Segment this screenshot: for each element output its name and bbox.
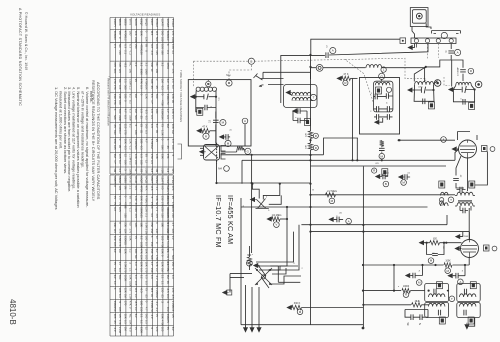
svg-text:22K: 22K — [145, 207, 149, 212]
link between grid coil circle and T1 circle — [381, 71, 384, 74]
audio bus y231 — [311, 232, 470, 239]
svg-text:4.7: 4.7 — [166, 109, 170, 113]
svg-text:8.2: 8.2 — [118, 160, 122, 164]
svg-text:105: 105 — [118, 307, 122, 312]
svg-text:22K: 22K — [161, 168, 165, 173]
svg-text:47K: 47K — [166, 100, 170, 105]
wire grid line — [311, 67, 426, 69]
svg-text:M: M — [331, 199, 334, 203]
svg-text:115: 115 — [134, 281, 138, 286]
svg-text:250: 250 — [139, 307, 143, 312]
series cap C2 — [326, 52, 328, 58]
svg-text:12: 12 — [113, 37, 117, 40]
svg-text:.05: .05 — [386, 173, 390, 175]
svg-text:A: A — [442, 138, 444, 142]
svg-text:3.2: 3.2 — [161, 62, 165, 66]
svg-text:100K: 100K — [123, 275, 127, 282]
svg-text:8.2: 8.2 — [171, 327, 175, 331]
svg-text:6SB7Y: 6SB7Y — [113, 19, 117, 28]
svg-text:8.2: 8.2 — [171, 85, 175, 89]
svg-text:0: 0 — [118, 222, 122, 224]
gang link dashed — [415, 44, 417, 48]
svg-text:M: M — [402, 181, 405, 185]
svg-text:4.7: 4.7 — [113, 160, 117, 164]
wires below switch — [246, 285, 260, 328]
svg-text:measured at 1,000 ohms per vol: measured at 1,000 ohms per volt. — [58, 91, 63, 149]
svg-text:12K: 12K — [145, 94, 149, 99]
svg-text:33K: 33K — [118, 94, 122, 99]
svg-text:6.3: 6.3 — [134, 275, 138, 279]
grid return arrow — [456, 235, 462, 239]
svg-text:180: 180 — [155, 69, 159, 74]
T3 secondary coils — [429, 303, 445, 306]
svg-text:.05: .05 — [161, 186, 165, 190]
svg-text:0: 0 — [150, 236, 154, 238]
svg-text:6BE6: 6BE6 — [123, 19, 127, 26]
svg-text:10K: 10K — [145, 85, 149, 90]
svg-text:-1.2: -1.2 — [129, 50, 133, 55]
svg-text:65: 65 — [155, 130, 159, 133]
svg-text:6.3: 6.3 — [145, 130, 149, 134]
svg-text:250: 250 — [161, 196, 165, 201]
svg-text:115: 115 — [155, 31, 159, 36]
svg-text:8.2: 8.2 — [129, 100, 133, 104]
svg-text:12K: 12K — [134, 154, 138, 159]
svg-text:-1.2: -1.2 — [150, 314, 154, 319]
FM tuner section outline — [281, 55, 311, 103]
svg-text:250: 250 — [150, 268, 154, 273]
svg-text:.5: .5 — [171, 154, 175, 157]
svg-text:0: 0 — [155, 79, 159, 81]
svg-text:.05: .05 — [339, 213, 343, 215]
svg-text:100K: 100K — [145, 69, 149, 75]
T5 cap — [463, 208, 465, 214]
AM IF can T3 right — [457, 284, 480, 302]
svg-text:2.1: 2.1 — [150, 94, 154, 98]
junction circles mid — [372, 168, 377, 173]
svg-text:2.2 MEG: 2.2 MEG — [327, 190, 337, 193]
svg-text:180: 180 — [118, 100, 122, 105]
svg-text:10K: 10K — [139, 31, 143, 36]
svg-text:4.7: 4.7 — [150, 100, 154, 104]
svg-text:75: 75 — [113, 196, 117, 200]
ground arrows below switch — [243, 326, 247, 332]
svg-text:12K: 12K — [123, 288, 127, 293]
svg-text:2.1: 2.1 — [129, 268, 133, 272]
svg-text:z: z — [419, 270, 421, 273]
AM IF input caps — [411, 314, 413, 320]
svg-text:1M: 1M — [113, 154, 117, 159]
svg-text:1.5K: 1.5K — [155, 255, 159, 261]
svg-text:115: 115 — [123, 124, 127, 129]
svg-text:B: B — [385, 182, 387, 186]
B+ bus y166 — [311, 165, 447, 167]
IF out circle A — [441, 137, 447, 143]
svg-text:0: 0 — [155, 242, 159, 244]
audio amp tube V4 — [459, 140, 477, 158]
svg-text:1M: 1M — [113, 168, 117, 173]
svg-text:180: 180 — [161, 37, 165, 42]
grid resistor R8 2.2MEG — [326, 193, 336, 197]
T2 arrow — [408, 88, 414, 92]
svg-text:680 *: 680 * — [247, 254, 253, 257]
svg-text:270: 270 — [171, 31, 175, 36]
svg-text:250: 250 — [161, 288, 165, 293]
svg-text:A: A — [348, 219, 350, 223]
svg-text:c: c — [386, 102, 388, 105]
svg-text:NC: NC — [155, 62, 159, 66]
svg-text:R: R — [205, 134, 208, 138]
svg-text:6.3: 6.3 — [150, 124, 154, 128]
svg-text:75: 75 — [155, 314, 159, 318]
svg-text:1M: 1M — [155, 168, 159, 173]
330K resistor to AVC — [287, 305, 293, 309]
svg-text:3.2: 3.2 — [113, 207, 117, 211]
T5 core lines — [458, 200, 472, 201]
svg-text:95: 95 — [145, 154, 149, 158]
svg-text:0: 0 — [166, 139, 170, 141]
svg-text:560: 560 — [171, 255, 175, 260]
svg-text:4.7: 4.7 — [171, 222, 175, 226]
svg-text:A PHOTOFACT STANDARD NOTATION: A PHOTOFACT STANDARD NOTATION SCHEMATIC — [18, 8, 22, 106]
svg-text:47K: 47K — [416, 301, 420, 303]
svg-text:10K: 10K — [145, 249, 149, 254]
svg-text:5-w: 5-w — [219, 97, 221, 101]
svg-text:250: 250 — [150, 249, 154, 254]
svg-text:.5: .5 — [161, 301, 165, 304]
svg-text:10K: 10K — [161, 44, 165, 49]
V4 top box outline — [458, 132, 478, 141]
cathode hatched box left — [439, 181, 445, 188]
svg-text:75: 75 — [161, 124, 165, 128]
svg-text:0: 0 — [123, 196, 127, 198]
svg-text:10K: 10K — [305, 145, 307, 149]
terminal A1 — [414, 39, 418, 43]
svg-text:0: 0 — [171, 249, 175, 251]
svg-text:B: B — [250, 59, 252, 63]
svg-text:33K: 33K — [161, 50, 165, 55]
svg-text:12AT7: 12AT7 — [161, 176, 165, 184]
svg-text:560: 560 — [123, 85, 127, 90]
svg-text:270: 270 — [113, 85, 117, 90]
svg-text:12: 12 — [123, 154, 127, 158]
svg-text:2: 2 — [266, 197, 268, 199]
svg-text:270: 270 — [123, 130, 127, 135]
meter jack M4 — [224, 166, 230, 172]
svg-text:560: 560 — [145, 314, 149, 319]
svg-text:.5: .5 — [134, 268, 138, 271]
svg-text:250: 250 — [150, 242, 154, 247]
svg-text:2.1: 2.1 — [113, 44, 117, 48]
svg-text:1M: 1M — [123, 327, 127, 332]
svg-text:105: 105 — [161, 236, 165, 241]
svg-text:L: L — [383, 68, 385, 72]
svg-text:12: 12 — [155, 236, 159, 240]
long vertical x363 — [362, 166, 364, 328]
svg-text:6: 6 — [460, 99, 462, 101]
svg-text:33K: 33K — [129, 320, 133, 325]
svg-text:3: 3 — [211, 105, 213, 107]
svg-text:75: 75 — [118, 202, 122, 205]
switch output wires right — [268, 266, 301, 284]
svg-text:12K: 12K — [155, 154, 159, 159]
svg-text:3.2: 3.2 — [139, 275, 143, 279]
volume control R9 — [267, 217, 273, 221]
svg-text:22K: 22K — [171, 229, 175, 234]
bus y207 left segment — [241, 206, 311, 208]
svg-text:3.2: 3.2 — [171, 236, 175, 240]
T1 primary coil — [375, 82, 390, 85]
terminal A3 — [436, 39, 440, 43]
svg-text:8.2: 8.2 — [118, 130, 122, 134]
speaker voice coil — [441, 192, 449, 195]
svg-text:12K: 12K — [134, 222, 138, 227]
svg-text:6.3: 6.3 — [118, 268, 122, 272]
band switch S2 upper nest wires — [252, 184, 281, 205]
main vertical bus x310 — [310, 67, 312, 325]
svg-text:47K: 47K — [171, 186, 175, 191]
svg-text:270: 270 — [145, 268, 149, 273]
svg-text:6.3: 6.3 — [171, 275, 175, 279]
svg-text:250: 250 — [150, 229, 154, 234]
svg-text:12K: 12K — [161, 262, 165, 267]
V4 grid wire and arrow — [452, 147, 458, 151]
grid cap C7 on drop wire — [215, 112, 217, 144]
svg-text:4.7: 4.7 — [118, 262, 122, 266]
svg-text:M: M — [430, 259, 433, 263]
svg-text:180: 180 — [139, 222, 143, 227]
svg-text:100K: 100K — [445, 261, 451, 263]
svg-text:12K: 12K — [139, 50, 143, 55]
svg-text:5Y3GT: 5Y3GT — [171, 176, 175, 185]
svg-text:33K: 33K — [113, 222, 117, 227]
svg-text:6.3: 6.3 — [134, 262, 138, 266]
band switch S2 wiper — [250, 197, 256, 201]
svg-text:22K: 22K — [118, 50, 122, 55]
svg-text:22K: 22K — [129, 139, 133, 144]
svg-text:33K: 33K — [134, 207, 138, 212]
svg-text:115: 115 — [150, 31, 154, 36]
svg-text:10K: 10K — [123, 160, 127, 165]
svg-text:-8.5: -8.5 — [134, 301, 138, 306]
svg-text:8: 8 — [420, 322, 422, 324]
tube V1 6S8GT detector — [204, 145, 220, 161]
svg-text:4. Line voltage maintained at: 4. Line voltage maintained at 117 volts … — [72, 87, 77, 189]
junction dot — [309, 54, 311, 56]
grid cap V3 — [379, 148, 385, 150]
svg-text:-8.5: -8.5 — [139, 288, 143, 293]
svg-text:3.2: 3.2 — [145, 62, 149, 66]
loop trimmer C5 — [205, 105, 207, 111]
svg-text:65: 65 — [150, 294, 154, 297]
svg-text:250: 250 — [150, 222, 154, 227]
svg-text:0: 0 — [123, 100, 127, 102]
svg-text:T: T — [451, 297, 453, 301]
svg-text:6X5GT: 6X5GT — [166, 19, 170, 28]
svg-text:105: 105 — [118, 186, 122, 191]
svg-text:560: 560 — [155, 37, 159, 42]
svg-text:6.3: 6.3 — [145, 320, 149, 324]
svg-text:-1.2: -1.2 — [155, 301, 159, 306]
svg-text:1: 1 — [371, 93, 373, 95]
svg-text:6BA6: 6BA6 — [118, 19, 122, 26]
svg-text:.5: .5 — [166, 301, 170, 304]
svg-text:0: 0 — [113, 109, 117, 111]
svg-text:95: 95 — [166, 281, 170, 284]
T2 bottom cap — [423, 99, 425, 105]
cathode arrow V1 — [200, 150, 206, 154]
table: tube resistance chart (rotated) — [110, 175, 175, 336]
svg-text:-8.5: -8.5 — [150, 186, 154, 191]
svg-text:6AQ5: 6AQ5 — [145, 19, 149, 26]
T2b slug circle — [475, 81, 482, 88]
svg-text:8.2: 8.2 — [166, 37, 170, 41]
svg-text:33K: 33K — [161, 154, 165, 159]
antenna terminal wire — [230, 274, 252, 293]
svg-text:65: 65 — [139, 124, 143, 128]
svg-text:4.7: 4.7 — [123, 109, 127, 113]
svg-text:560: 560 — [113, 115, 117, 120]
svg-text:2.1: 2.1 — [171, 115, 175, 119]
margin notes: numbered service notes 1-6 — [54, 87, 94, 210]
svg-text:6.3: 6.3 — [123, 320, 127, 324]
svg-text:12K: 12K — [145, 37, 149, 42]
svg-text:A: A — [332, 49, 334, 53]
svg-text:12K: 12K — [171, 44, 175, 49]
tone cap C — [329, 217, 335, 221]
svg-text:22K: 22K — [134, 160, 138, 165]
svg-text:6BA6: 6BA6 — [118, 176, 122, 183]
svg-text:22K: 22K — [166, 307, 170, 312]
T2b bottom cap — [463, 99, 465, 105]
grid return corner — [455, 150, 458, 161]
padder C6 — [197, 108, 203, 115]
svg-text:12K: 12K — [161, 213, 165, 218]
svg-text:33K: 33K — [129, 275, 133, 280]
svg-text:3.2: 3.2 — [134, 294, 138, 298]
svg-text:R: R — [405, 293, 408, 297]
svg-text:470K: 470K — [161, 242, 165, 248]
T1 secondary return — [356, 138, 358, 160]
svg-text:10K: 10K — [171, 145, 175, 150]
V1 grid dashes — [216, 143, 218, 164]
audio bus y225 — [301, 215, 447, 225]
svg-text:0: 0 — [161, 139, 165, 141]
grid stopper resistor V3 — [381, 139, 383, 141]
svg-text:10K: 10K — [171, 207, 175, 212]
T1 inner can — [374, 81, 393, 112]
svg-text:10K: 10K — [139, 196, 143, 201]
svg-text:330K: 330K — [129, 115, 133, 121]
svg-text:6.3: 6.3 — [145, 242, 149, 246]
T2 center tap wire — [424, 67, 426, 82]
svg-text:.5: .5 — [150, 327, 154, 330]
svg-text:47K: 47K — [145, 186, 149, 191]
svg-text:-8.5: -8.5 — [155, 213, 159, 218]
svg-text:8.2: 8.2 — [166, 79, 170, 83]
svg-text:1: 1 — [336, 216, 338, 218]
svg-text:12K: 12K — [134, 196, 138, 201]
svg-text:6.3: 6.3 — [166, 168, 170, 172]
svg-text:6AT6: 6AT6 — [129, 176, 133, 183]
svg-text:1M: 1M — [161, 268, 165, 272]
svg-text:M: M — [381, 154, 384, 158]
svg-text:2.1: 2.1 — [155, 207, 159, 211]
svg-text:95: 95 — [129, 196, 133, 200]
svg-text:6AU6: 6AU6 — [134, 19, 138, 26]
svg-text:2.1: 2.1 — [145, 213, 149, 217]
svg-text:65: 65 — [129, 222, 133, 226]
svg-text:1.5K: 1.5K — [161, 130, 165, 136]
antenna terminal strip TS1 — [411, 38, 456, 44]
svg-text:6AQ5: 6AQ5 — [145, 176, 149, 183]
svg-text:47K: 47K — [113, 79, 117, 84]
filter cap 1 — [406, 273, 412, 277]
svg-text:180: 180 — [139, 139, 143, 144]
svg-text:IF=10.7 MC FM: IF=10.7 MC FM — [214, 195, 223, 248]
svg-text:22K: 22K — [155, 196, 159, 201]
svg-text:270: 270 — [129, 229, 133, 234]
phono input terminal — [400, 38, 406, 44]
svg-text:-1.2: -1.2 — [129, 207, 133, 212]
svg-text:180: 180 — [123, 213, 127, 218]
svg-text:47K: 47K — [118, 320, 122, 325]
svg-text:4.7: 4.7 — [150, 262, 154, 266]
svg-text:-8.5: -8.5 — [161, 85, 165, 90]
svg-text:6.3: 6.3 — [134, 62, 138, 66]
svg-text:10K: 10K — [123, 314, 127, 319]
svg-text:-8.5: -8.5 — [129, 160, 133, 165]
svg-text:470K: 470K — [139, 186, 143, 193]
svg-text:250K: 250K — [464, 236, 469, 238]
svg-text:-8.5: -8.5 — [129, 327, 133, 332]
svg-text:10000: 10000 — [403, 286, 410, 288]
T3 bottom caps — [438, 310, 440, 316]
svg-text:47K: 47K — [150, 154, 154, 159]
svg-text:10K: 10K — [171, 124, 175, 129]
svg-text:10: 10 — [209, 120, 212, 123]
terminal A4 — [449, 39, 453, 43]
svg-text:0: 0 — [123, 207, 127, 209]
svg-text:33K: 33K — [155, 229, 159, 234]
svg-text:47 K: 47 K — [202, 126, 207, 129]
svg-text:0: 0 — [161, 94, 165, 96]
AM IF can T3 left — [425, 284, 449, 302]
dashed gang links — [428, 44, 439, 59]
ground arrow under strip — [408, 45, 414, 49]
svg-text:VOLTAGE READINGS: VOLTAGE READINGS — [130, 13, 160, 17]
bypass cap cluster 1 — [376, 174, 382, 178]
bottom section box outline — [241, 198, 363, 325]
svg-text:75: 75 — [166, 327, 170, 331]
wire phono to terminal strip — [412, 23, 431, 38]
svg-text:-1.2: -1.2 — [150, 50, 154, 55]
filter resistor R 100K — [444, 263, 452, 267]
svg-text:.05: .05 — [139, 168, 143, 172]
junction dots on buses — [286, 218, 288, 220]
svg-text:10K: 10K — [123, 139, 127, 144]
svg-text:5: 5 — [268, 210, 270, 212]
svg-text:470 MMF: 470 MMF — [458, 66, 460, 76]
svg-text:6.3: 6.3 — [150, 275, 154, 279]
svg-text:6.3: 6.3 — [150, 115, 154, 119]
terminal A2 — [425, 39, 429, 43]
svg-text:180: 180 — [161, 222, 165, 227]
svg-text:0: 0 — [145, 301, 149, 303]
svg-text:3.2: 3.2 — [150, 44, 154, 48]
svg-text:75: 75 — [134, 236, 138, 240]
svg-text:0: 0 — [118, 37, 122, 39]
